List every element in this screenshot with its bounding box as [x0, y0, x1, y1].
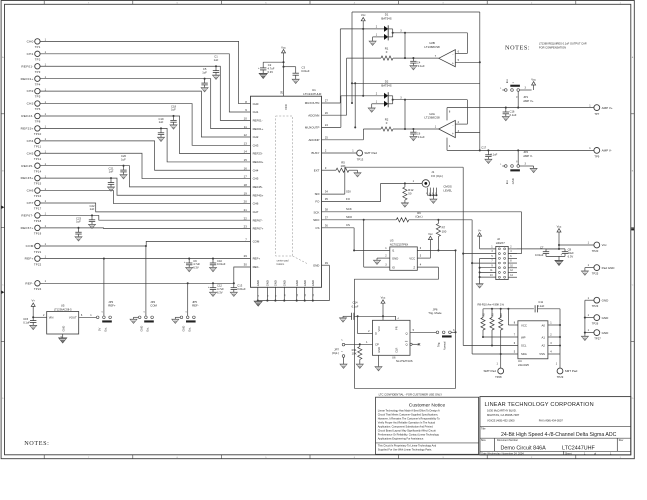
svg-text:Circuit Board Layout May Signi: Circuit Board Layout May Significantly A… — [378, 429, 436, 433]
svg-text:C11: C11 — [538, 300, 543, 304]
svg-text:CH5: CH5 — [253, 177, 259, 181]
svg-text:0.01uF: 0.01uF — [535, 253, 544, 257]
svg-text:EXT: EXT — [314, 168, 320, 172]
U1 left pin numbers 8-23 — [244, 100, 248, 229]
svg-text:TP29: TP29 — [557, 375, 564, 379]
svg-text:GND: GND — [377, 347, 381, 353]
LTC confidential banner — [379, 392, 443, 396]
test point TP15 (REF45+) — [21, 175, 47, 185]
capacitor C17 0.1uF — [481, 145, 497, 163]
svg-text:Rev: Rev — [619, 439, 624, 442]
svg-text:TP3: TP3 — [35, 70, 41, 74]
svg-text:GND: GND — [62, 326, 66, 332]
test point TP11 (CH4) — [27, 138, 47, 148]
svg-text:10uF: 10uF — [568, 251, 574, 255]
svg-text:5: 5 — [426, 193, 427, 195]
svg-text:C16: C16 — [510, 109, 515, 113]
wire REF45+ to U1 — [40, 178, 250, 195]
note text LT1368 output cap — [539, 42, 587, 50]
svg-text:CH3: CH3 — [27, 102, 34, 106]
capacitor C15 0.1uF — [23, 317, 37, 330]
svg-text:14: 14 — [244, 150, 248, 154]
IC U3 NC7SZ157P6X — [390, 239, 418, 271]
wire Vcc to TP20 — [559, 242, 594, 245]
document number row — [481, 439, 624, 451]
svg-text:REF01+: REF01+ — [253, 127, 264, 131]
svg-text:Normal: Normal — [443, 341, 447, 350]
svg-text:Trig. Mode: Trig. Mode — [428, 311, 442, 315]
svg-text:CH7: CH7 — [253, 210, 259, 214]
wire U3 IO to SDO — [364, 220, 390, 267]
svg-text:Demo Circuit 846A: Demo Circuit 846A — [501, 446, 547, 452]
wire REF45- to U1 — [40, 166, 250, 187]
svg-text:TP5: TP5 — [35, 95, 41, 99]
U3 GND pin — [373, 255, 389, 265]
svg-text:CH1: CH1 — [253, 110, 259, 114]
svg-text:15: 15 — [244, 158, 248, 162]
svg-text:COM: COM — [253, 240, 260, 244]
resistor R2 0 — [363, 100, 438, 131]
wire U4 WP to R8 — [483, 334, 518, 337]
svg-text:19: 19 — [244, 191, 248, 195]
test point TP13 SMT Pad — [357, 150, 377, 162]
svg-text:CH6: CH6 — [253, 202, 259, 206]
op-amp U2A LT1368CS8 — [424, 112, 459, 138]
svg-text:LEVEL: LEVEL — [443, 188, 452, 192]
capacitor C2 4.7uF 6.3V — [258, 62, 283, 78]
svg-text:TP2: TP2 — [35, 57, 41, 61]
svg-text:GND: GND — [602, 316, 610, 320]
svg-text:VIN: VIN — [49, 316, 54, 320]
svg-text:CH0: CH0 — [253, 102, 259, 106]
wire CH0 to U1 — [40, 41, 250, 103]
svg-text:0.01uF: 0.01uF — [301, 69, 310, 73]
svg-text:NOTES:: NOTES: — [505, 44, 530, 51]
wire U4 VCC from pullup bus — [508, 309, 518, 325]
test point TP21 (COM) — [26, 243, 47, 254]
wire CH3 to U1 — [40, 104, 250, 146]
wire CS net — [322, 223, 356, 251]
svg-text:SDI: SDI — [315, 192, 320, 196]
svg-text:Applications Engineering For A: Applications Engineering For Assistance. — [378, 437, 424, 441]
svg-text:SCK: SCK — [313, 210, 319, 214]
svg-text:C13: C13 — [237, 284, 242, 288]
pullup bus for R8-R10 — [483, 308, 534, 310]
U2A supply pin 4 to AMP V- rail — [447, 138, 594, 151]
svg-text:1uF: 1uF — [109, 170, 114, 174]
svg-text:LINEAR TECHNOLOGY CORPORATION: LINEAR TECHNOLOGY CORPORATION — [485, 402, 594, 408]
wire CH5 to U1 — [40, 153, 250, 178]
test point TP22 (REF+) — [25, 256, 47, 267]
svg-text:AMP V-: AMP V- — [602, 149, 612, 153]
diode D1 BAT54S — [340, 13, 402, 41]
capacitor C9 4.7uF 6.3V — [184, 258, 200, 272]
svg-text:VOICE (408) 432-1900: VOICE (408) 432-1900 — [487, 418, 515, 422]
D1 lower diode ground return — [369, 34, 384, 46]
J2 left pin stubs — [490, 251, 493, 277]
capacitor C22 1uF — [88, 204, 95, 229]
wire REF- to U1 pin 30 — [40, 263, 250, 284]
svg-text:TP27: TP27 — [594, 336, 601, 340]
svg-text:-: - — [452, 123, 453, 127]
svg-text:GND: GND — [295, 280, 299, 286]
svg-text:Ext.: Ext. — [188, 327, 192, 332]
svg-text:REF45+: REF45+ — [253, 193, 264, 197]
svg-text:Ext.: Ext. — [146, 327, 150, 332]
svg-text:TP20: TP20 — [592, 249, 599, 253]
J2 right pin stubs — [508, 247, 517, 278]
jumper JP3 REF+ — [96, 258, 115, 332]
svg-text:Ext.: Ext. — [505, 78, 509, 83]
frame zone ticks left/right — [1, 56, 634, 400]
svg-text:SMT Pad: SMT Pad — [483, 369, 496, 373]
test point TP14 (REF45-) — [21, 163, 46, 173]
svg-text:Z: Z — [413, 265, 415, 269]
svg-text:6.3V: 6.3V — [193, 266, 199, 270]
svg-text:C17: C17 — [481, 145, 486, 149]
Vcc supply for D1/D2 — [361, 13, 366, 96]
svg-text:CP: CP — [375, 342, 379, 346]
svg-text:C7: C7 — [540, 246, 544, 250]
wire ADCINP to R2 — [322, 129, 364, 140]
svg-text:Vcc: Vcc — [428, 232, 433, 236]
svg-text:REF+: REF+ — [253, 257, 261, 261]
wire CH2 to U1 — [40, 91, 250, 137]
svg-text:LT1368 REQUIRES 0.1uF OUTPUT C: LT1368 REQUIRES 0.1uF OUTPUT CAP. — [539, 42, 587, 46]
svg-text:C14: C14 — [353, 301, 358, 305]
svg-text:REF01+: REF01+ — [21, 77, 34, 81]
svg-text:FO (Opt.): FO (Opt.) — [431, 174, 443, 178]
wire U5 VOUT to JP3 — [79, 314, 97, 317]
svg-text:Wednesday, November 24, 2004: Wednesday, November 24, 2004 — [487, 452, 524, 455]
wire REF23+ to U1 — [40, 128, 250, 162]
svg-text:TP13: TP13 — [357, 158, 364, 162]
svg-text:24-Bit High Speed 4-/8-Channel: 24-Bit High Speed 4-/8-Channel Delta Sig… — [501, 432, 617, 438]
svg-text:BAT54S: BAT54S — [381, 84, 391, 88]
wire CH1 to U1 — [40, 54, 250, 112]
svg-text:TP17: TP17 — [34, 207, 42, 211]
test point TP10 (REF23+) — [21, 126, 47, 136]
svg-text:C8: C8 — [568, 248, 572, 252]
test point TP27 GND — [585, 329, 609, 340]
resistor R10 — [499, 309, 504, 355]
svg-text:REF67+: REF67+ — [21, 226, 34, 230]
svg-text:COM: COM — [26, 244, 34, 248]
svg-text:U6: U6 — [392, 355, 396, 359]
svg-text:CH0: CH0 — [27, 40, 34, 44]
svg-text:A1: A1 — [541, 335, 545, 339]
svg-text:Vcc: Vcc — [361, 13, 366, 17]
svg-text:Document Number: Document Number — [497, 439, 518, 442]
svg-text:4.7uF: 4.7uF — [217, 287, 224, 291]
test point TP18 (REF67-) — [21, 213, 46, 223]
svg-text:100: 100 — [442, 229, 447, 233]
jumper JP6 Trig. Mode — [428, 307, 455, 350]
jumper JP5 REF- — [172, 282, 199, 331]
svg-text:SDA: SDA — [521, 352, 527, 356]
svg-text:6.3V: 6.3V — [217, 290, 223, 294]
capacitor C21 1uF — [107, 167, 114, 192]
svg-text:0.1uF: 0.1uF — [537, 304, 544, 308]
svg-text:GND: GND — [313, 263, 319, 267]
svg-text:TP16: TP16 — [34, 194, 42, 198]
svg-text:LTC2447UHF: LTC2447UHF — [303, 92, 321, 96]
svg-text:Trig.: Trig. — [437, 342, 441, 347]
wire lower return to MUXOUTP row — [352, 82, 480, 128]
svg-text:AMP V+: AMP V+ — [602, 106, 613, 110]
capacitor C1 1uF — [212, 55, 219, 80]
test point TP6 (CH3) — [27, 101, 47, 111]
svg-text:bottom: bottom — [277, 263, 285, 266]
svg-text:TP26: TP26 — [592, 321, 599, 325]
svg-text:GND: GND — [311, 280, 315, 286]
svg-text:GND: GND — [256, 280, 260, 286]
title block main box — [480, 397, 631, 455]
svg-text:0.1uF: 0.1uF — [352, 304, 359, 308]
svg-text:SMT Pad: SMT Pad — [565, 369, 578, 373]
svg-text:GND: GND — [274, 280, 278, 286]
power ground at U1 ground bus — [254, 301, 262, 306]
svg-text:GND: GND — [602, 298, 610, 302]
wire SDI loop around J1 down to J2 pin 3 — [345, 167, 496, 345]
svg-text:0.1uF: 0.1uF — [23, 321, 30, 325]
wire U6 Q to JP6 — [410, 329, 436, 332]
svg-text:GND: GND — [303, 280, 307, 286]
svg-text:VCC: VCC — [521, 323, 527, 327]
svg-text:C15: C15 — [23, 317, 28, 321]
svg-text:1630 McCARTHY BLVD.: 1630 McCARTHY BLVD. — [487, 409, 517, 413]
svg-text:V+: V+ — [478, 228, 482, 232]
capacitor C13 0.01uF — [230, 282, 246, 296]
wire CS to U3 I1 — [354, 247, 390, 250]
test point TP2 (CH1) — [27, 51, 47, 61]
resistor R8 — [481, 309, 486, 338]
U3 VCC supply — [417, 232, 433, 258]
Vcc at JP1 — [531, 77, 536, 90]
svg-text:6.3V: 6.3V — [568, 254, 574, 258]
svg-text:SCK: SCK — [346, 207, 352, 211]
wire U3 pin 6 row — [417, 247, 456, 251]
svg-text:REF67+: REF67+ — [253, 227, 264, 231]
svg-text:-: - — [452, 52, 453, 56]
test point TP25 Pad GND — [581, 264, 615, 275]
wire U2B feedback to inverting input — [455, 33, 467, 54]
wire MUXOUTN node row — [322, 29, 468, 103]
svg-text:20: 20 — [244, 200, 248, 204]
svg-text:0.01uF: 0.01uF — [217, 262, 226, 266]
svg-text:ADCINP: ADCINP — [308, 138, 319, 142]
U6 Qbar no connect — [412, 343, 420, 345]
svg-text:CH5: CH5 — [27, 151, 34, 155]
svg-text:REF+: REF+ — [25, 257, 34, 261]
svg-text:Circuit That Meets Customer-Su: Circuit That Meets Customer-Supplied Spe… — [378, 413, 439, 417]
svg-text:R8-R10 Are 4.99K 1%: R8-R10 Are 4.99K 1% — [478, 303, 505, 307]
wire SDO net with R6 — [322, 215, 496, 354]
svg-text:1uF: 1uF — [121, 157, 126, 161]
test point TP19 (REF67+) — [21, 225, 47, 235]
wire REF+ to U1 pin 29 — [40, 254, 250, 258]
test point TP3 (REF01-) — [21, 63, 46, 73]
svg-text:TP19: TP19 — [34, 231, 42, 235]
svg-text:Sheet: Sheet — [565, 452, 572, 455]
IC U4 24LC025 — [518, 321, 548, 367]
V+ supply to J2 pin 1 — [478, 228, 496, 249]
capacitor C8 10uF 6.3V — [561, 248, 574, 259]
svg-text:1uF: 1uF — [214, 58, 219, 62]
capacitor C6 0.1uF — [410, 129, 425, 141]
svg-text:1uF: 1uF — [159, 120, 164, 124]
capacitor C14 0.1uF — [339, 301, 383, 323]
svg-text:D: D — [375, 332, 377, 336]
svg-text:REF-: REF- — [25, 281, 33, 285]
wire U4 SDA row — [472, 351, 518, 354]
svg-text:MUXOUTP: MUXOUTP — [305, 126, 320, 130]
capacitor C7 0.01uF — [535, 246, 565, 258]
capacitor C10 0.01uF — [209, 258, 225, 272]
svg-text:LT1236ACS8-5: LT1236ACS8-5 — [54, 307, 72, 311]
U4 right pins to VSS rail — [548, 309, 561, 354]
svg-text:0.1uF: 0.1uF — [490, 153, 497, 157]
svg-text:(Opt.): (Opt.) — [415, 215, 422, 219]
svg-text:C9: C9 — [193, 259, 197, 263]
svg-text:SDI: SDI — [346, 190, 351, 194]
svg-text:6.3V: 6.3V — [268, 70, 274, 74]
svg-text:REF23-: REF23- — [21, 114, 33, 118]
resistor R9 — [490, 309, 495, 347]
wire SCK net to J2 pin 4 — [322, 207, 522, 253]
svg-text:REF01-: REF01- — [253, 118, 263, 122]
jumper JP2 AMP V- — [500, 149, 537, 184]
svg-text:LTC2447UHF: LTC2447UHF — [562, 446, 596, 452]
svg-text:SDO: SDO — [346, 215, 353, 219]
test point TP24 (REF-) — [25, 280, 46, 291]
capacitor C16 0.1uF — [502, 107, 517, 121]
note R8-R10 Are 4.99K 1% — [478, 303, 505, 307]
svg-text:CS: CS — [346, 223, 350, 227]
svg-text:TP6: TP6 — [35, 107, 41, 111]
svg-text:VCC: VCC — [377, 326, 381, 332]
wire SDI net — [322, 167, 351, 194]
svg-text:TP28: TP28 — [495, 375, 502, 379]
svg-text:TP25: TP25 — [592, 272, 599, 276]
svg-text:CH4: CH4 — [253, 168, 259, 172]
resistor R12 50 — [401, 183, 414, 207]
svg-text:TP22: TP22 — [34, 263, 42, 267]
svg-text:+: + — [452, 61, 454, 65]
svg-text:WP: WP — [521, 335, 526, 339]
svg-text:TP10: TP10 — [34, 132, 42, 136]
svg-text:0.1uF: 0.1uF — [418, 64, 425, 68]
wire FO net to J1 — [322, 180, 423, 202]
svg-text:REF+: REF+ — [108, 304, 116, 308]
wire U2A feedback to inverting input — [455, 100, 467, 124]
U6 reference labels — [392, 355, 413, 363]
svg-text:However, It Remains The Custom: However, It Remains The Customer's Respo… — [378, 417, 440, 421]
test point TP12 (CH5) — [27, 150, 47, 160]
svg-text:1uF: 1uF — [90, 207, 95, 211]
svg-text:1uF: 1uF — [76, 219, 81, 223]
notes heading bottom left — [24, 440, 49, 447]
wire REF01- to U1 — [40, 66, 250, 120]
capacitor C3 0.01uF — [284, 66, 310, 84]
svg-text:REF67-: REF67- — [21, 214, 33, 218]
svg-text:Vcc: Vcc — [281, 45, 286, 49]
wire MUXOUTP node row — [322, 96, 468, 128]
U6 GND pin ground — [375, 355, 382, 371]
svg-text:12: 12 — [244, 133, 248, 137]
svg-text:TP24: TP24 — [34, 287, 42, 291]
wire CH7 to U1 — [40, 203, 250, 212]
capacitor C23 1uF — [75, 216, 82, 241]
svg-text:(Opt.): (Opt.) — [332, 351, 339, 355]
svg-text:GND: GND — [266, 280, 270, 286]
svg-text:BUSY: BUSY — [312, 151, 320, 155]
capacitor C11 0.1uF — [535, 300, 560, 312]
wire U2A noninverting input return — [455, 133, 481, 152]
svg-text:Ext.: Ext. — [505, 179, 509, 184]
svg-text:0.01uF: 0.01uF — [237, 287, 246, 291]
svg-text:GND: GND — [602, 331, 610, 335]
wire ADCINN to R1 — [322, 58, 347, 115]
svg-text:AMP V+: AMP V+ — [523, 99, 534, 103]
svg-text:Pad GND: Pad GND — [602, 266, 616, 270]
svg-text:TP23: TP23 — [592, 304, 599, 308]
capacitor C18 1uF — [170, 104, 177, 129]
resistor R6 (Opt.) — [415, 211, 422, 219]
test point TP9 AMP V- — [589, 147, 611, 159]
D2 lower diode ground return — [368, 101, 384, 113]
svg-text:C2: C2 — [268, 63, 272, 67]
resistor R11 10K — [352, 344, 364, 368]
svg-text:4.7uF: 4.7uF — [193, 262, 200, 266]
svg-text:17: 17 — [244, 175, 248, 179]
svg-text:C3: C3 — [302, 66, 306, 70]
svg-text:Verify Proper And Reliable Ope: Verify Proper And Reliable Operation In … — [378, 421, 436, 425]
date and sheet row — [481, 452, 612, 455]
svg-text:MUXOUTN: MUXOUTN — [305, 101, 320, 105]
wire COM to U1 pin 7 — [40, 237, 250, 246]
GND test point bus and ground — [581, 300, 588, 340]
svg-text:LT1368CS8: LT1368CS8 — [424, 45, 440, 49]
capacitor C20 1uF — [120, 154, 127, 179]
notes heading top right — [505, 44, 530, 51]
svg-text:30: 30 — [244, 263, 248, 267]
svg-text:C12: C12 — [217, 284, 222, 288]
capacitor C19 1uF — [157, 117, 164, 142]
wire U6 PR from Vcc — [383, 316, 400, 320]
svg-text:U5: U5 — [61, 304, 65, 308]
customer notice box — [376, 397, 479, 454]
wire U6 CP row — [345, 341, 373, 345]
svg-text:C10: C10 — [217, 259, 222, 263]
wire U3 Z output loop — [355, 250, 457, 388]
svg-text:NL17SZ74US: NL17SZ74US — [396, 359, 413, 363]
wire REF67+ to U1 — [40, 227, 250, 230]
Vcc supply to U1 pin 28 — [281, 45, 286, 96]
svg-text:TP18: TP18 — [34, 219, 42, 223]
J1 shield pins to ground — [426, 188, 438, 204]
svg-text:REF23-: REF23- — [253, 152, 263, 156]
U1 left pin names — [253, 102, 264, 269]
svg-text:TP15: TP15 — [34, 182, 42, 186]
svg-text:16: 16 — [244, 166, 248, 170]
test point TP29 SMT Pad — [556, 354, 578, 379]
svg-text:1uF: 1uF — [171, 108, 176, 112]
svg-text:ADCINN: ADCINN — [308, 113, 319, 117]
svg-text:11: 11 — [244, 125, 247, 129]
test point TP26 GND — [585, 314, 609, 325]
svg-text:REF23+: REF23+ — [21, 127, 34, 131]
